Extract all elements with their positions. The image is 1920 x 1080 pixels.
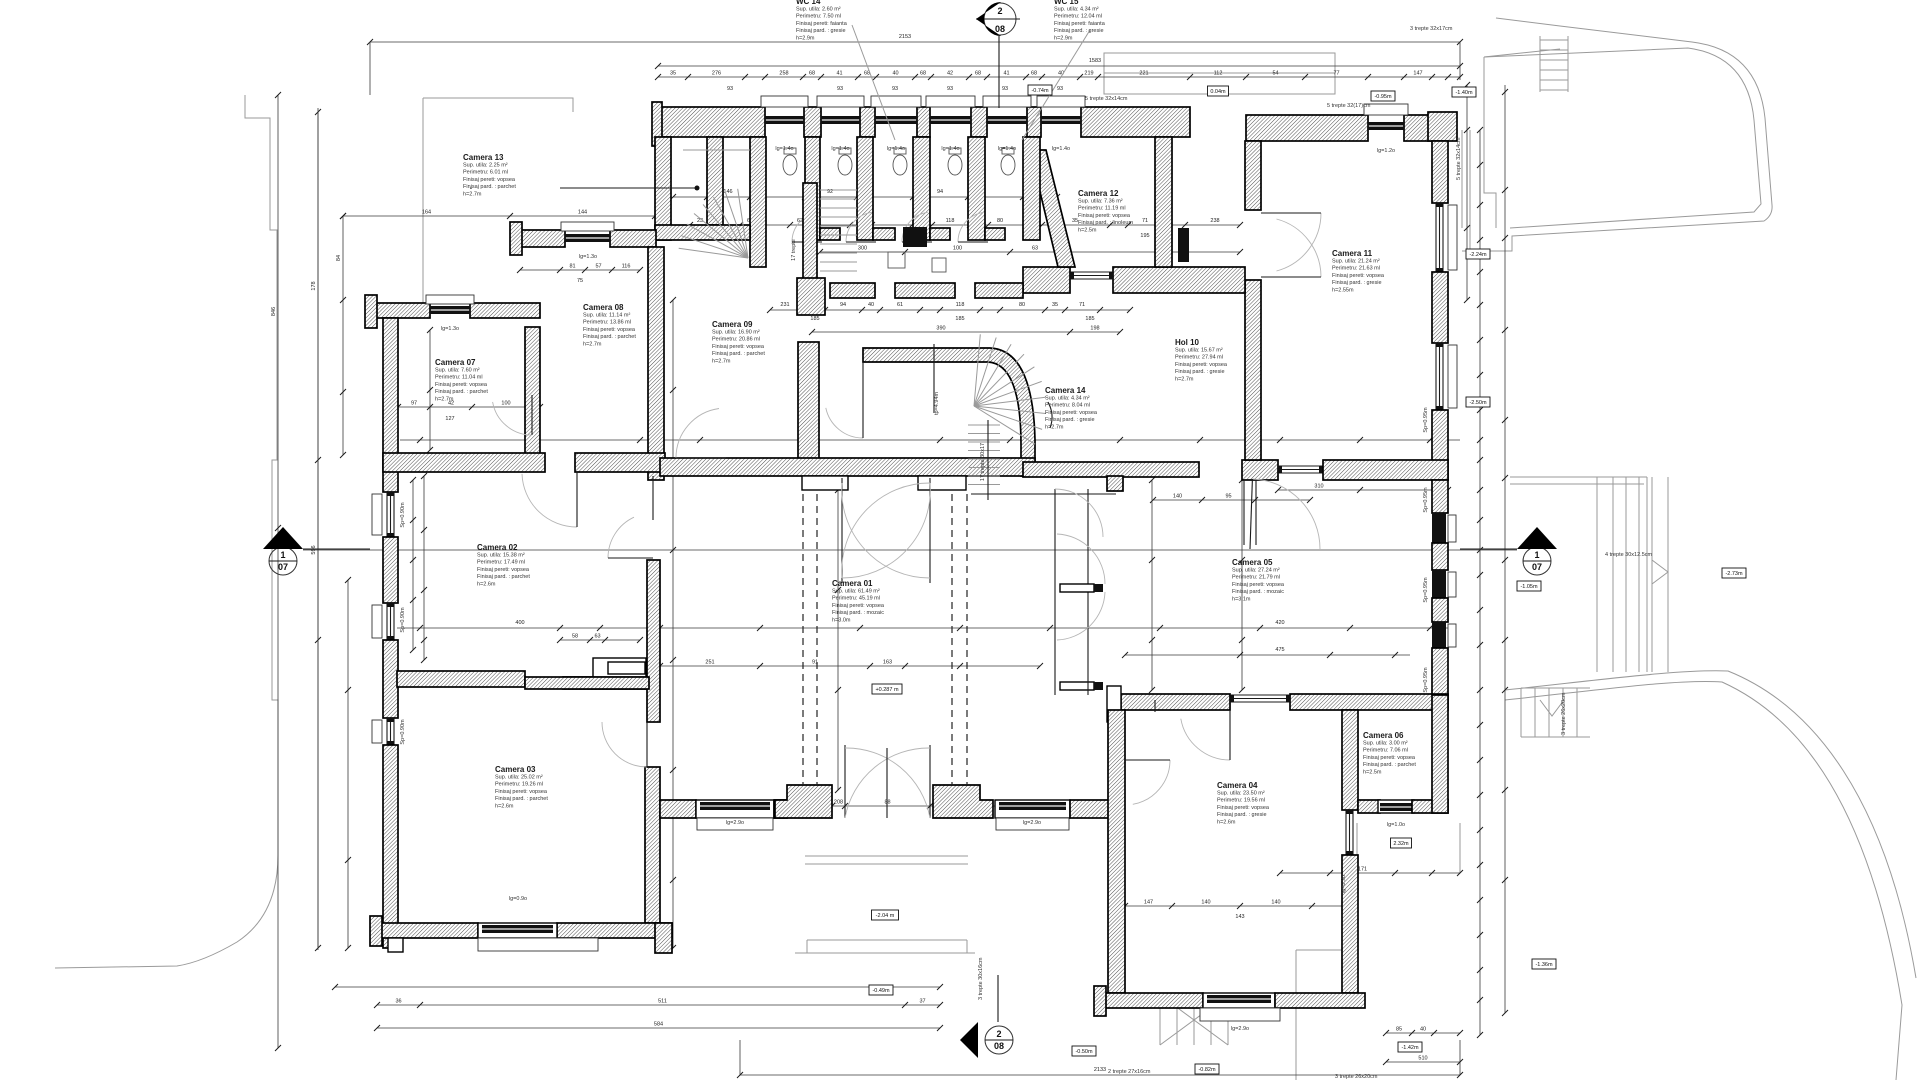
svg-text:93: 93 xyxy=(947,86,953,92)
svg-text:Finisaj pereti: vopsea: Finisaj pereti: vopsea xyxy=(435,382,488,388)
svg-text:54: 54 xyxy=(1272,71,1278,77)
svg-text:127: 127 xyxy=(445,416,454,422)
svg-text:95: 95 xyxy=(1225,494,1231,500)
svg-text:Perimetru: 7.50 ml: Perimetru: 7.50 ml xyxy=(796,14,841,20)
svg-text:Perimetru: 11.19 ml: Perimetru: 11.19 ml xyxy=(1078,206,1126,212)
svg-text:276: 276 xyxy=(712,71,721,77)
svg-text:140: 140 xyxy=(1201,900,1210,906)
svg-text:185: 185 xyxy=(1085,316,1094,322)
svg-text:93: 93 xyxy=(892,86,898,92)
svg-text:Finisaj pard. : parchet: Finisaj pard. : parchet xyxy=(477,574,530,580)
svg-text:68: 68 xyxy=(920,71,926,77)
svg-text:WC 14: WC 14 xyxy=(796,0,821,6)
svg-text:-1.05m: -1.05m xyxy=(1520,584,1538,590)
svg-text:3 trepte 26x20cm: 3 trepte 26x20cm xyxy=(1561,692,1567,735)
svg-text:221: 221 xyxy=(1139,71,1148,77)
svg-text:Sup. utila: 2.60 m²: Sup. utila: 2.60 m² xyxy=(796,7,841,13)
svg-text:35: 35 xyxy=(1052,302,1058,308)
svg-text:2: 2 xyxy=(996,1029,1001,1039)
svg-text:lg=2.9o: lg=2.9o xyxy=(726,820,744,826)
svg-text:3 trepte 26x20cm: 3 trepte 26x20cm xyxy=(1335,1074,1378,1080)
svg-text:Sp=0.95m: Sp=0.95m xyxy=(1423,667,1429,693)
svg-text:h=2.7m: h=2.7m xyxy=(435,396,454,402)
svg-text:Finisaj pard. : gresie: Finisaj pard. : gresie xyxy=(1045,417,1095,423)
svg-text:Finisaj pereti: vopsea: Finisaj pereti: vopsea xyxy=(832,603,885,609)
svg-text:h=2.6m: h=2.6m xyxy=(477,581,496,587)
svg-text:Finisaj pereti: vopsea: Finisaj pereti: vopsea xyxy=(477,567,530,573)
svg-text:tp=4.94m: tp=4.94m xyxy=(934,391,940,415)
svg-text:08: 08 xyxy=(995,24,1005,34)
svg-text:Camera 13: Camera 13 xyxy=(463,153,504,162)
svg-text:61: 61 xyxy=(897,302,903,308)
svg-text:97: 97 xyxy=(411,401,417,407)
svg-text:lg=1.4o: lg=1.4o xyxy=(941,146,959,152)
svg-text:Sup. utila: 7.60 m²: Sup. utila: 7.60 m² xyxy=(435,368,480,374)
svg-text:5 trepte 32(17)cm: 5 trepte 32(17)cm xyxy=(1327,103,1371,109)
svg-text:77: 77 xyxy=(1333,71,1339,77)
svg-text:40: 40 xyxy=(868,302,874,308)
svg-text:2 trepte 27x16cm: 2 trepte 27x16cm xyxy=(1108,1069,1151,1075)
svg-text:Finisaj pereti: faianta: Finisaj pereti: faianta xyxy=(796,21,848,27)
svg-text:Finisaj pard. : parchet: Finisaj pard. : parchet xyxy=(463,184,516,190)
svg-text:208: 208 xyxy=(834,800,843,806)
svg-text:Sup. utila: 15.38 m²: Sup. utila: 15.38 m² xyxy=(477,553,525,559)
svg-text:300: 300 xyxy=(858,246,867,252)
svg-text:93: 93 xyxy=(837,86,843,92)
svg-text:Sp=0.90m: Sp=0.90m xyxy=(400,719,406,745)
svg-text:251: 251 xyxy=(705,660,714,666)
svg-text:112: 112 xyxy=(1214,71,1223,77)
svg-text:Camera 05: Camera 05 xyxy=(1232,558,1273,567)
svg-text:Sup. utila: 7.36 m²: Sup. utila: 7.36 m² xyxy=(1078,199,1123,205)
svg-text:Finisaj pard. : parchet: Finisaj pard. : parchet xyxy=(495,796,548,802)
svg-text:144: 144 xyxy=(578,210,587,216)
svg-text:Camera 03: Camera 03 xyxy=(495,765,536,774)
svg-text:Perimetru: 11.04 ml: Perimetru: 11.04 ml xyxy=(435,375,483,381)
svg-text:68: 68 xyxy=(809,71,815,77)
svg-text:35: 35 xyxy=(670,71,676,77)
svg-text:75: 75 xyxy=(577,278,583,284)
svg-text:+0.287 m: +0.287 m xyxy=(875,687,899,693)
svg-text:Finisaj pereti: vopsea: Finisaj pereti: vopsea xyxy=(1175,362,1228,368)
svg-text:h=3.0m: h=3.0m xyxy=(832,617,851,623)
svg-text:Finisaj pereti: vopsea: Finisaj pereti: vopsea xyxy=(1217,805,1270,811)
svg-text:100: 100 xyxy=(953,246,962,252)
svg-text:lg=1.4o: lg=1.4o xyxy=(831,146,849,152)
svg-text:0.04m: 0.04m xyxy=(1210,89,1226,95)
svg-text:2.32m: 2.32m xyxy=(1393,841,1409,847)
svg-text:h=2.6m: h=2.6m xyxy=(495,803,514,809)
svg-text:lg=1.4o: lg=1.4o xyxy=(1052,146,1070,152)
svg-text:Sup. utila: 15.67 m²: Sup. utila: 15.67 m² xyxy=(1175,348,1223,354)
svg-text:Finisaj pard. : gresie: Finisaj pard. : gresie xyxy=(796,28,846,34)
svg-text:3 trepte 30x16cm: 3 trepte 30x16cm xyxy=(978,957,984,1000)
svg-text:-2.04 m: -2.04 m xyxy=(876,913,895,919)
svg-text:h=2.6m: h=2.6m xyxy=(1217,819,1236,825)
svg-text:238: 238 xyxy=(1210,218,1219,224)
svg-text:Finisaj pard. : mozaic: Finisaj pard. : mozaic xyxy=(832,610,884,616)
svg-text:Sp=0.95m: Sp=0.95m xyxy=(1423,487,1429,513)
svg-text:198: 198 xyxy=(1090,326,1099,332)
svg-text:Sp=0.95m: Sp=0.95m xyxy=(1423,577,1429,603)
svg-text:Perimetru: 17.49 ml: Perimetru: 17.49 ml xyxy=(477,560,525,566)
svg-text:Finisaj pereti: vopsea: Finisaj pereti: vopsea xyxy=(1232,582,1285,588)
svg-text:140: 140 xyxy=(1271,900,1280,906)
svg-text:Camera 06: Camera 06 xyxy=(1363,731,1404,740)
svg-text:Sup. utila: 61.49 m²: Sup. utila: 61.49 m² xyxy=(832,589,880,595)
svg-text:93: 93 xyxy=(1057,86,1063,92)
svg-text:846: 846 xyxy=(271,307,277,316)
svg-text:3 trepte 32x17cm: 3 trepte 32x17cm xyxy=(1410,26,1453,32)
svg-text:Finisaj pereti: vopsea: Finisaj pereti: vopsea xyxy=(1078,213,1131,219)
svg-text:584: 584 xyxy=(654,1022,663,1028)
svg-text:68: 68 xyxy=(1031,71,1037,77)
svg-text:Sup. utila: 3.00 m²: Sup. utila: 3.00 m² xyxy=(1363,741,1408,747)
svg-text:lg=2.9o: lg=2.9o xyxy=(1231,1026,1249,1032)
svg-text:68: 68 xyxy=(975,71,981,77)
svg-text:310: 310 xyxy=(1314,484,1323,490)
svg-text:Sup. utila: 4.34 m²: Sup. utila: 4.34 m² xyxy=(1054,7,1099,13)
svg-text:-0.74m: -0.74m xyxy=(1031,88,1049,94)
svg-text:511: 511 xyxy=(658,999,667,1005)
svg-text:lg=2.9o: lg=2.9o xyxy=(1023,820,1041,826)
svg-text:Perimetru: 7.06 ml: Perimetru: 7.06 ml xyxy=(1363,748,1408,754)
svg-text:h=2.9m: h=2.9m xyxy=(1054,35,1073,41)
svg-text:Finisaj pereti: vopsea: Finisaj pereti: vopsea xyxy=(463,177,516,183)
svg-text:lg=0.9o: lg=0.9o xyxy=(1341,875,1347,893)
svg-text:94: 94 xyxy=(937,189,943,195)
svg-text:-2.73m: -2.73m xyxy=(1725,571,1743,577)
svg-text:164: 164 xyxy=(422,210,431,216)
svg-text:140: 140 xyxy=(1173,494,1182,500)
svg-text:-2.24m: -2.24m xyxy=(1469,252,1487,258)
svg-text:Finisaj pard. : parchet: Finisaj pard. : parchet xyxy=(583,334,636,340)
svg-text:100: 100 xyxy=(501,401,510,407)
svg-text:Sup. utila: 25.02 m²: Sup. utila: 25.02 m² xyxy=(495,775,543,781)
svg-text:h=2.9m: h=2.9m xyxy=(796,35,815,41)
svg-text:Camera 01: Camera 01 xyxy=(832,579,873,588)
svg-text:Camera 08: Camera 08 xyxy=(583,303,624,312)
svg-text:94: 94 xyxy=(840,302,846,308)
svg-text:h=2.7m: h=2.7m xyxy=(463,191,482,197)
svg-text:40: 40 xyxy=(1420,1027,1426,1033)
svg-text:08: 08 xyxy=(994,1041,1004,1051)
svg-text:Hol 10: Hol 10 xyxy=(1175,338,1200,347)
svg-text:h=2.7m: h=2.7m xyxy=(1045,424,1064,430)
svg-text:-0.95m: -0.95m xyxy=(1374,94,1392,100)
svg-text:-1.42m: -1.42m xyxy=(1401,1045,1419,1051)
svg-text:71: 71 xyxy=(1142,218,1148,224)
svg-text:85: 85 xyxy=(1396,1027,1402,1033)
svg-text:5 trepte 32x14cm: 5 trepte 32x14cm xyxy=(1085,96,1128,102)
svg-text:Finisaj pard. : gresie: Finisaj pard. : gresie xyxy=(1332,280,1382,286)
svg-text:lg=1.4o: lg=1.4o xyxy=(775,146,793,152)
svg-text:h=2.5m: h=2.5m xyxy=(1363,769,1382,775)
svg-text:Sp=0.95m: Sp=0.95m xyxy=(1423,407,1429,433)
svg-text:Finisaj pereti: faianta: Finisaj pereti: faianta xyxy=(1054,21,1106,27)
svg-text:510: 510 xyxy=(1418,1056,1427,1062)
svg-text:Finisaj pereti: vopsea: Finisaj pereti: vopsea xyxy=(1363,755,1416,761)
svg-text:Perimetru: 6.01 ml: Perimetru: 6.01 ml xyxy=(463,170,508,176)
svg-text:lg=1.4o: lg=1.4o xyxy=(998,146,1016,152)
svg-text:Sup. utila: 27.24 m²: Sup. utila: 27.24 m² xyxy=(1232,568,1280,574)
svg-text:Finisaj pard. : gresie: Finisaj pard. : gresie xyxy=(1054,28,1104,34)
svg-text:185: 185 xyxy=(955,316,964,322)
svg-text:36: 36 xyxy=(395,999,401,1005)
svg-text:118: 118 xyxy=(946,218,955,224)
svg-text:37: 37 xyxy=(919,999,925,1005)
svg-text:Sp=0.90m: Sp=0.90m xyxy=(400,502,406,528)
svg-text:Finisaj pereti: vopsea: Finisaj pereti: vopsea xyxy=(495,789,548,795)
svg-text:Sup. utila: 21.24 m²: Sup. utila: 21.24 m² xyxy=(1332,259,1380,265)
svg-text:93: 93 xyxy=(727,86,733,92)
svg-text:420: 420 xyxy=(1275,620,1284,626)
svg-text:58: 58 xyxy=(572,634,578,640)
svg-text:h=2.5m: h=2.5m xyxy=(1078,227,1097,233)
svg-text:17 trepte: 17 trepte xyxy=(791,239,797,261)
svg-text:Sup. utila: 23.50 m²: Sup. utila: 23.50 m² xyxy=(1217,791,1265,797)
svg-text:41: 41 xyxy=(836,71,842,77)
svg-text:Finisaj pard. : parchet: Finisaj pard. : parchet xyxy=(1363,762,1416,768)
svg-text:Camera 14: Camera 14 xyxy=(1045,386,1086,395)
svg-text:42: 42 xyxy=(947,71,953,77)
svg-text:07: 07 xyxy=(278,562,288,572)
svg-text:195: 195 xyxy=(1140,233,1149,239)
svg-text:Finisaj pard. : gresie: Finisaj pard. : gresie xyxy=(1175,369,1225,375)
svg-text:17 trepte 30x17: 17 trepte 30x17 xyxy=(980,443,986,481)
svg-text:Finisaj pereti: vopsea: Finisaj pereti: vopsea xyxy=(712,344,765,350)
svg-text:Finisaj pereti: vopsea: Finisaj pereti: vopsea xyxy=(1045,410,1098,416)
svg-text:Camera 02: Camera 02 xyxy=(477,543,518,552)
svg-text:147: 147 xyxy=(1413,71,1422,77)
svg-text:185: 185 xyxy=(810,316,819,322)
svg-text:Perimetru: 45.19 ml: Perimetru: 45.19 ml xyxy=(832,596,880,602)
svg-text:57: 57 xyxy=(595,264,601,270)
svg-text:Perimetru: 13.86 ml: Perimetru: 13.86 ml xyxy=(583,320,631,326)
svg-text:h=2.7m: h=2.7m xyxy=(712,358,731,364)
svg-text:Camera 07: Camera 07 xyxy=(435,358,476,367)
svg-text:Perimetru: 20.86 ml: Perimetru: 20.86 ml xyxy=(712,337,760,343)
svg-text:Sup. utila: 4.34 m²: Sup. utila: 4.34 m² xyxy=(1045,396,1090,402)
svg-text:143: 143 xyxy=(1235,914,1244,920)
svg-text:63: 63 xyxy=(1032,246,1038,252)
svg-text:84: 84 xyxy=(336,255,342,261)
svg-text:Finisaj pereti: vopsea: Finisaj pereti: vopsea xyxy=(1332,273,1385,279)
svg-text:219: 219 xyxy=(1084,71,1093,77)
svg-text:Perimetru: 8.04 ml: Perimetru: 8.04 ml xyxy=(1045,403,1090,409)
svg-text:Perimetru: 19.26 ml: Perimetru: 19.26 ml xyxy=(495,782,543,788)
svg-text:116: 116 xyxy=(622,264,631,270)
svg-text:Camera 12: Camera 12 xyxy=(1078,189,1119,198)
svg-text:-2.50m: -2.50m xyxy=(1469,400,1487,406)
svg-text:lg=1.4o: lg=1.4o xyxy=(887,146,905,152)
svg-text:Finisaj pard. : gresie: Finisaj pard. : gresie xyxy=(1217,812,1267,818)
svg-text:63: 63 xyxy=(594,634,600,640)
svg-text:Finisaj pereti: vopsea: Finisaj pereti: vopsea xyxy=(583,327,636,333)
svg-text:-1.40m: -1.40m xyxy=(1455,90,1473,96)
svg-text:h=2.7m: h=2.7m xyxy=(583,341,602,347)
svg-text:Sup. utila: 16.90 m²: Sup. utila: 16.90 m² xyxy=(712,330,760,336)
svg-text:475: 475 xyxy=(1275,647,1284,653)
svg-text:171: 171 xyxy=(1358,867,1367,873)
svg-text:-0.49m: -0.49m xyxy=(872,988,890,994)
svg-text:WC 15: WC 15 xyxy=(1054,0,1079,6)
svg-text:Camera 11: Camera 11 xyxy=(1332,249,1373,258)
svg-text:h=2.55m: h=2.55m xyxy=(1332,287,1354,293)
svg-text:1583: 1583 xyxy=(1089,58,1101,64)
svg-text:Sp=0.90m: Sp=0.90m xyxy=(400,607,406,633)
svg-text:390: 390 xyxy=(936,326,945,332)
svg-text:lg=1.2o: lg=1.2o xyxy=(1377,148,1395,154)
svg-text:Perimetru: 12.04 ml: Perimetru: 12.04 ml xyxy=(1054,14,1102,20)
svg-text:1: 1 xyxy=(280,550,285,560)
svg-text:81: 81 xyxy=(569,264,575,270)
svg-text:147: 147 xyxy=(1144,900,1153,906)
svg-text:-0.82m: -0.82m xyxy=(1198,1067,1216,1073)
svg-text:Sup. utila: 2.25 m²: Sup. utila: 2.25 m² xyxy=(463,163,508,169)
svg-text:lg=1.3o: lg=1.3o xyxy=(441,326,459,332)
svg-text:Finisaj pard. : linoleum: Finisaj pard. : linoleum xyxy=(1078,220,1133,226)
svg-text:258: 258 xyxy=(779,71,788,77)
svg-text:400: 400 xyxy=(515,620,524,626)
svg-text:40: 40 xyxy=(892,71,898,77)
svg-text:2133: 2133 xyxy=(1094,1067,1106,1073)
svg-text:118: 118 xyxy=(956,302,965,308)
svg-text:lg=1.0o: lg=1.0o xyxy=(1387,822,1405,828)
svg-text:h=2.7m: h=2.7m xyxy=(1175,376,1194,382)
svg-text:Perimetru: 27.94 ml: Perimetru: 27.94 ml xyxy=(1175,355,1223,361)
svg-text:-0.50m: -0.50m xyxy=(1075,1049,1093,1055)
svg-text:Finisaj pard. : parchet: Finisaj pard. : parchet xyxy=(712,351,765,357)
svg-text:Finisaj pard. : parchet: Finisaj pard. : parchet xyxy=(435,389,488,395)
svg-text:Finisaj pard. : mozaic: Finisaj pard. : mozaic xyxy=(1232,589,1284,595)
svg-text:Perimetru: 21.63 ml: Perimetru: 21.63 ml xyxy=(1332,266,1380,272)
svg-text:lg=0.9o: lg=0.9o xyxy=(509,896,527,902)
svg-text:41: 41 xyxy=(1003,71,1009,77)
svg-text:1: 1 xyxy=(1534,550,1539,560)
svg-text:4 trepte 30x12.5cm: 4 trepte 30x12.5cm xyxy=(1605,552,1653,558)
svg-text:93: 93 xyxy=(1002,86,1008,92)
svg-text:Perimetru: 19.56 ml: Perimetru: 19.56 ml xyxy=(1217,798,1265,804)
svg-text:2: 2 xyxy=(997,6,1002,16)
svg-text:163: 163 xyxy=(883,660,892,666)
svg-text:lg=1.3o: lg=1.3o xyxy=(579,254,597,260)
svg-text:71: 71 xyxy=(1079,302,1085,308)
svg-text:178: 178 xyxy=(311,281,317,290)
svg-text:Perimetru: 21.79 ml: Perimetru: 21.79 ml xyxy=(1232,575,1280,581)
svg-text:5 trepte 32x14cm: 5 trepte 32x14cm xyxy=(1456,137,1462,180)
svg-text:Camera 09: Camera 09 xyxy=(712,320,753,329)
svg-text:2153: 2153 xyxy=(899,34,911,40)
svg-text:h=3.1m: h=3.1m xyxy=(1232,596,1251,602)
svg-text:80: 80 xyxy=(1019,302,1025,308)
svg-text:Sup. utila: 11.14 m²: Sup. utila: 11.14 m² xyxy=(583,313,630,319)
svg-text:-1.36m: -1.36m xyxy=(1535,962,1553,968)
svg-text:80: 80 xyxy=(997,218,1003,224)
svg-text:Camera 04: Camera 04 xyxy=(1217,781,1258,790)
svg-text:231: 231 xyxy=(780,302,789,308)
svg-text:07: 07 xyxy=(1532,562,1542,572)
